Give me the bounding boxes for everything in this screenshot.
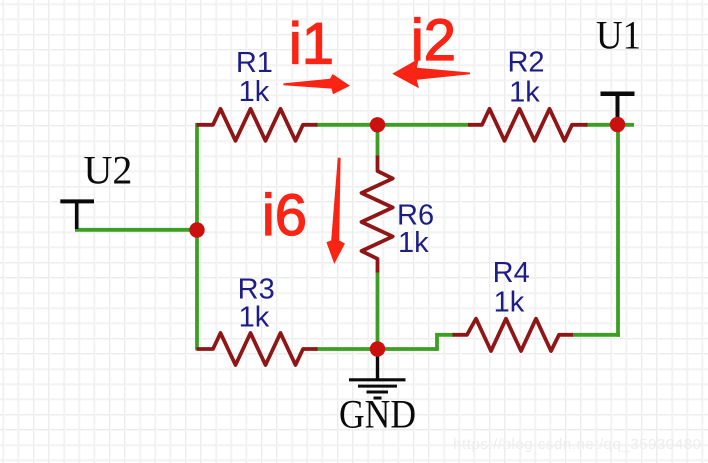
terminal U2 symbol xyxy=(60,201,94,229)
svg-text:i6: i6 xyxy=(262,183,307,248)
wire: bottom segment (R3 to step) xyxy=(316,347,437,351)
junction node: bottom middle (R3/R6/R4/GND) xyxy=(370,341,385,356)
current label i6 xyxy=(262,183,307,248)
junction node: top middle (R1/R2/R6) xyxy=(370,117,385,132)
wire: right vertical segment xyxy=(618,125,620,335)
wire: R6 lower segment to bottom node xyxy=(376,271,380,350)
resistor R3 xyxy=(197,333,318,365)
svg-text:1k: 1k xyxy=(239,76,270,108)
value label R6 1k xyxy=(398,227,429,259)
svg-text:R2: R2 xyxy=(507,47,544,79)
current label i2 xyxy=(411,8,456,73)
label R1 xyxy=(236,47,273,79)
wire: left vertical net segment xyxy=(195,123,199,350)
svg-text:1k: 1k xyxy=(398,227,429,259)
ground symbol xyxy=(349,349,406,398)
svg-text:GND: GND xyxy=(339,392,416,437)
wire: R6 upper lead segment xyxy=(376,125,380,157)
svg-text:R3: R3 xyxy=(238,273,275,305)
label U1 xyxy=(596,12,641,57)
wire: top middle segment (R1 to R2) xyxy=(316,123,469,127)
value label R4 1k xyxy=(494,287,525,319)
wire: top right stub past U1 junction xyxy=(586,123,634,127)
current arrow i6 xyxy=(326,158,345,264)
svg-text:1k: 1k xyxy=(509,76,540,108)
resistor R4 xyxy=(453,319,574,351)
resistor R6 xyxy=(362,156,393,273)
wire: step jog up to R4 xyxy=(437,335,454,351)
label GND xyxy=(339,392,416,437)
label R6 xyxy=(397,200,434,232)
junction node: U2 on left vertical xyxy=(189,222,204,237)
svg-text:https://blog.csdn.net/qq_35930: https://blog.csdn.net/qq_35930480 xyxy=(453,436,701,453)
label U2 xyxy=(84,148,133,193)
label R4 xyxy=(493,257,530,289)
svg-text:U2: U2 xyxy=(84,148,133,193)
label R2 xyxy=(507,47,544,79)
current arrow i2 xyxy=(392,59,470,89)
terminal U1 symbol xyxy=(601,94,635,124)
resistor R2 xyxy=(468,109,588,141)
resistor R1 xyxy=(197,109,318,141)
value label R1 1k xyxy=(239,76,270,108)
current label i1 xyxy=(289,11,334,76)
svg-text:R1: R1 xyxy=(236,47,273,79)
label R3 xyxy=(238,273,275,305)
svg-text:R4: R4 xyxy=(493,257,530,289)
svg-text:1k: 1k xyxy=(494,287,525,319)
value label R2 1k xyxy=(509,76,540,108)
svg-text:U1: U1 xyxy=(596,12,641,57)
svg-text:i1: i1 xyxy=(289,11,334,76)
wire: U2 horizontal segment xyxy=(75,228,197,232)
current arrow i1 xyxy=(283,74,350,94)
junction node: U1 terminal xyxy=(610,117,625,132)
value label R3 1k xyxy=(239,302,270,334)
watermark xyxy=(453,436,701,453)
svg-text:1k: 1k xyxy=(239,302,270,334)
wire: R4 right segment xyxy=(572,333,620,337)
